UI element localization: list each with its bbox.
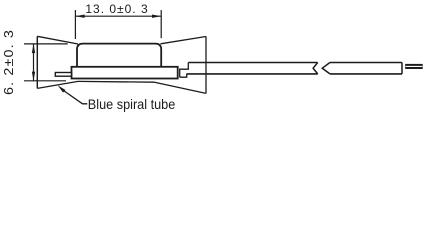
svg-text:13. 0±0. 3: 13. 0±0. 3 <box>85 2 148 16</box>
arrowhead left of 13.0 dimension <box>75 15 84 18</box>
wire break notch (left piece) <box>313 63 318 74</box>
spiral tube right edge <box>205 37 207 94</box>
arrowhead right of 13.0 dimension <box>152 15 161 18</box>
crimp step bottom <box>180 74 187 77</box>
wire bottom line (right of break) <box>330 73 402 75</box>
thermostat base plate <box>72 67 178 79</box>
extension line right of 13.0 dimension <box>160 10 162 38</box>
thermostat cap body <box>77 44 161 67</box>
spiral tube top-right taper <box>161 37 207 44</box>
wire insulation end cap <box>401 63 403 74</box>
spiral tube bottom-left taper <box>37 81 78 88</box>
leader arrowhead to tube <box>58 85 66 92</box>
left lead stub <box>55 73 71 77</box>
extension line left of 13.0 dimension <box>74 10 76 39</box>
wire bottom line (left of break) <box>187 73 318 75</box>
svg-text:6. 2±0. 3: 6. 2±0. 3 <box>2 29 16 95</box>
dimension line 13.0 <box>75 15 161 17</box>
wire top line (left of break) <box>188 62 317 64</box>
spiral tube bottom-right taper <box>155 82 207 93</box>
extension line top of 6.2 dimension <box>24 43 68 45</box>
spiral tube left edge <box>36 36 38 88</box>
stripped conductor end <box>405 64 423 69</box>
wire top line (right of break) <box>330 62 402 64</box>
spiral tube top-left taper <box>37 36 78 44</box>
conductor highlight <box>406 65 423 67</box>
dimension line 6.2 <box>33 44 35 81</box>
wire break point (right piece) <box>322 63 330 74</box>
arrowhead top of 6.2 dimension <box>32 44 35 53</box>
extension line bottom of 6.2 dimension <box>24 80 66 82</box>
crimp step top <box>180 63 189 78</box>
spiral tube bottom middle line <box>78 80 155 83</box>
leader line <box>64 91 88 104</box>
svg-text:Blue spiral tube: Blue spiral tube <box>88 96 176 112</box>
arrowhead bottom of 6.2 dimension <box>32 72 35 81</box>
